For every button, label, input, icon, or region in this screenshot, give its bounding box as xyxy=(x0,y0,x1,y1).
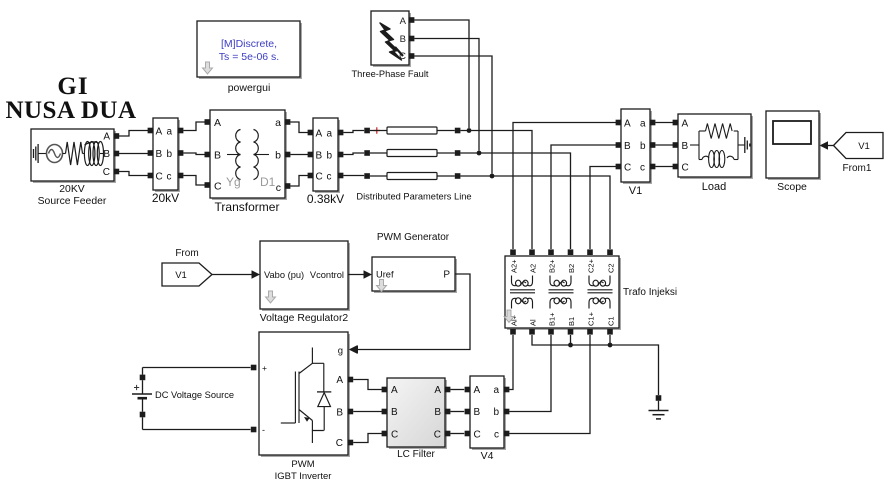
svg-text:A: A xyxy=(214,117,221,129)
svg-text:B: B xyxy=(214,150,221,162)
svg-text:A2+: A2+ xyxy=(510,259,519,273)
svg-text:Source Feeder: Source Feeder xyxy=(38,196,107,207)
svg-text:B: B xyxy=(391,407,398,418)
svg-text:C: C xyxy=(682,162,689,173)
svg-text:B2: B2 xyxy=(567,264,576,273)
wire fault C to line junction xyxy=(414,56,492,174)
svg-text:c: c xyxy=(494,429,499,440)
wire LC a to V4 A xyxy=(450,389,464,391)
wire 20kV A to transformer A xyxy=(183,122,207,131)
transformer block xyxy=(205,110,291,214)
wire trafo C1 stub xyxy=(609,335,611,345)
wire transformer a to 0.38kV A xyxy=(290,122,310,133)
svg-text:B: B xyxy=(434,407,441,418)
svg-text:C1: C1 xyxy=(607,316,616,326)
svg-text:V1: V1 xyxy=(175,270,187,281)
wire trafo B1 stub xyxy=(570,335,572,345)
svg-text:C: C xyxy=(156,171,163,182)
wire fault B to line junction xyxy=(414,39,479,151)
svg-text:C: C xyxy=(316,171,323,182)
three-phase VI measurement 0.38kV xyxy=(307,118,344,206)
svg-text:B1: B1 xyxy=(567,317,576,326)
svg-text:Voltage Regulator2: Voltage Regulator2 xyxy=(260,313,349,324)
wire trafo A1/B1/C1 to ground bus xyxy=(532,335,659,395)
junction phase C fault xyxy=(490,174,495,179)
svg-text:PWM: PWM xyxy=(291,459,314,470)
svg-text:a: a xyxy=(640,118,646,129)
svg-text:C: C xyxy=(391,429,398,440)
scope block xyxy=(766,111,821,193)
svg-text:C: C xyxy=(624,162,631,173)
wire trafo C2+ to V1 C xyxy=(590,167,616,250)
svg-text:Vabo (pu): Vabo (pu) xyxy=(264,270,304,280)
svg-text:Ts = 5e-06 s.: Ts = 5e-06 s. xyxy=(219,51,279,63)
svg-text:P: P xyxy=(443,270,450,281)
svg-text:c: c xyxy=(327,171,332,182)
wire 0.38kV c to line C xyxy=(343,175,364,177)
svg-text:A: A xyxy=(682,118,689,129)
goto-from tag From xyxy=(162,248,212,286)
svg-text:LC Filter: LC Filter xyxy=(397,449,435,460)
wire feeder A to 20kV bus A xyxy=(119,131,148,137)
svg-text:b: b xyxy=(167,149,173,160)
svg-text:DC Voltage Source: DC Voltage Source xyxy=(155,390,234,400)
wire regulator Vcontrol to PWM Uref with arrowhead xyxy=(348,270,372,279)
svg-text:A: A xyxy=(103,132,110,143)
svg-text:B: B xyxy=(336,407,343,418)
wire inverter B to LC filter B xyxy=(353,411,384,413)
svg-text:D1: D1 xyxy=(260,175,276,189)
wire V1 b to load B xyxy=(655,144,673,146)
wire feeder C to 20kV bus C xyxy=(119,172,148,176)
svg-text:b: b xyxy=(275,150,281,162)
voltage regulator2 block xyxy=(260,241,350,324)
wire 20kV C to transformer C xyxy=(183,176,207,186)
powergui block xyxy=(197,21,302,94)
wire V1 a to load A xyxy=(655,122,673,124)
wire transformer c to 0.38kV C xyxy=(290,176,310,187)
goto-from tag From1 xyxy=(834,133,884,175)
wire inverter A to LC filter A xyxy=(353,380,384,390)
wire phase A line to trafo A2 xyxy=(460,131,532,250)
three-phase VI measurement V4 xyxy=(465,376,510,462)
wire From to voltage regulator with arrowhead xyxy=(212,270,260,279)
wire inverter C to LC filter C xyxy=(353,434,384,443)
wire V4 a to trafo A1+ xyxy=(509,335,513,390)
node label GI NUSA DUA (title text) xyxy=(5,73,136,124)
svg-text:NUSA DUA: NUSA DUA xyxy=(5,97,136,124)
svg-text:a: a xyxy=(167,126,173,137)
svg-text:B: B xyxy=(156,149,163,160)
svg-text:B2+: B2+ xyxy=(548,259,557,273)
svg-text:C: C xyxy=(474,429,481,440)
svg-text:b: b xyxy=(640,141,646,152)
junction bus C1 xyxy=(608,343,613,348)
svg-text:20kV: 20kV xyxy=(152,191,179,205)
svg-text:V4: V4 xyxy=(481,450,494,462)
svg-text:0.38kV: 0.38kV xyxy=(307,192,344,206)
svg-text:20KV: 20KV xyxy=(59,184,84,195)
trafo injeksi (series injection transformers) xyxy=(504,249,677,334)
pwm generator block xyxy=(372,232,457,293)
svg-text:B: B xyxy=(316,150,323,161)
svg-text:C1+: C1+ xyxy=(587,311,596,326)
wire phase B line to trafo B2 xyxy=(460,153,570,249)
svg-text:Transformer: Transformer xyxy=(215,200,280,214)
svg-text:Scope: Scope xyxy=(777,181,807,193)
svg-text:c: c xyxy=(640,162,645,173)
svg-text:V1: V1 xyxy=(629,185,642,197)
wire 0.38kV b to line B xyxy=(343,153,364,155)
svg-text:B: B xyxy=(474,407,481,418)
lc filter block xyxy=(382,378,451,460)
svg-text:V1: V1 xyxy=(858,141,870,152)
wire V4 c to trafo C1+ xyxy=(509,335,590,434)
junction phase B fault xyxy=(477,151,482,156)
svg-text:B: B xyxy=(624,141,631,152)
svg-text:a: a xyxy=(493,385,499,396)
ground G1 xyxy=(649,395,669,419)
svg-text:A: A xyxy=(336,375,343,386)
dc voltage source (battery) xyxy=(132,368,251,430)
svg-text:C2: C2 xyxy=(607,263,616,273)
svg-text:C: C xyxy=(103,167,110,178)
wire fault A to line junction xyxy=(414,20,469,128)
svg-text:Three-Phase Fault: Three-Phase Fault xyxy=(352,69,429,79)
wire V1 c to load C xyxy=(655,166,673,168)
svg-text:GI: GI xyxy=(57,73,88,100)
20KV source feeder block xyxy=(31,129,119,207)
svg-text:g: g xyxy=(338,346,343,357)
svg-text:A: A xyxy=(624,118,631,129)
svg-text:Al: Al xyxy=(529,319,538,326)
svg-text:Distributed Parameters Line: Distributed Parameters Line xyxy=(356,192,471,202)
svg-text:A: A xyxy=(434,385,441,396)
wire LC c to V4 C xyxy=(450,433,464,435)
svg-text:C: C xyxy=(214,181,222,193)
svg-text:C: C xyxy=(434,429,441,440)
svg-text:C2+: C2+ xyxy=(587,258,596,273)
svg-text:c: c xyxy=(167,171,172,182)
distributed parameters line block xyxy=(356,127,471,202)
wire phase C line to trafo C2 xyxy=(460,176,610,249)
wire LC b to V4 B xyxy=(450,411,464,413)
svg-text:a: a xyxy=(275,117,281,129)
svg-text:[M]Discrete,: [M]Discrete, xyxy=(221,38,277,50)
svg-text:A2: A2 xyxy=(529,264,538,273)
three-phase fault block xyxy=(352,11,429,79)
wire From1 to scope with arrowhead xyxy=(820,141,835,150)
svg-text:From1: From1 xyxy=(843,163,872,174)
wire PWM P to inverter g with arrowhead xyxy=(350,274,471,354)
wire trafo B2+ to V1 B xyxy=(551,145,616,249)
svg-text:B: B xyxy=(400,34,406,45)
svg-text:B1+: B1+ xyxy=(548,312,557,326)
wire transformer b to 0.38kV B xyxy=(290,154,310,156)
svg-text:IGBT Inverter: IGBT Inverter xyxy=(275,471,332,482)
svg-text:A: A xyxy=(391,385,398,396)
svg-text:A: A xyxy=(316,128,323,139)
svg-text:PWM Generator: PWM Generator xyxy=(377,232,450,243)
svg-text:b: b xyxy=(493,407,499,418)
svg-text:A: A xyxy=(400,16,407,27)
svg-text:Trafo Injeksi: Trafo Injeksi xyxy=(623,287,677,298)
svg-text:a: a xyxy=(327,128,333,139)
wire feeder B to 20kV bus B xyxy=(119,153,148,155)
svg-text:B: B xyxy=(682,141,689,152)
wire 0.38kV a to line A xyxy=(343,131,364,133)
svg-text:Uref: Uref xyxy=(376,270,394,280)
svg-text:C: C xyxy=(336,438,343,449)
wire 20kV B to transformer B xyxy=(183,153,207,155)
svg-text:powergui: powergui xyxy=(228,82,271,94)
three-phase VI measurement V1 xyxy=(616,109,656,197)
svg-text:Load: Load xyxy=(702,181,726,193)
svg-text:b: b xyxy=(327,150,333,161)
three-phase VI measurement 20kV xyxy=(148,118,184,205)
wire trafo A2+ to V1 A xyxy=(513,123,616,250)
svg-text:c: c xyxy=(276,182,281,194)
wire V4 b to trafo B1+ xyxy=(509,335,551,412)
svg-text:A: A xyxy=(156,126,163,137)
load block (parallel RL) xyxy=(673,114,753,193)
pwm igbt inverter block xyxy=(251,332,357,482)
svg-text:-: - xyxy=(262,425,265,435)
svg-text:Yg: Yg xyxy=(226,175,241,189)
svg-text:B: B xyxy=(103,149,110,160)
junction bus B1 xyxy=(568,343,573,348)
svg-text:C: C xyxy=(399,51,406,62)
svg-text:A: A xyxy=(474,385,481,396)
svg-text:From: From xyxy=(175,248,198,259)
svg-text:Vcontrol: Vcontrol xyxy=(310,270,344,280)
svg-text:+: + xyxy=(262,363,267,373)
junction phase A fault xyxy=(467,128,472,133)
